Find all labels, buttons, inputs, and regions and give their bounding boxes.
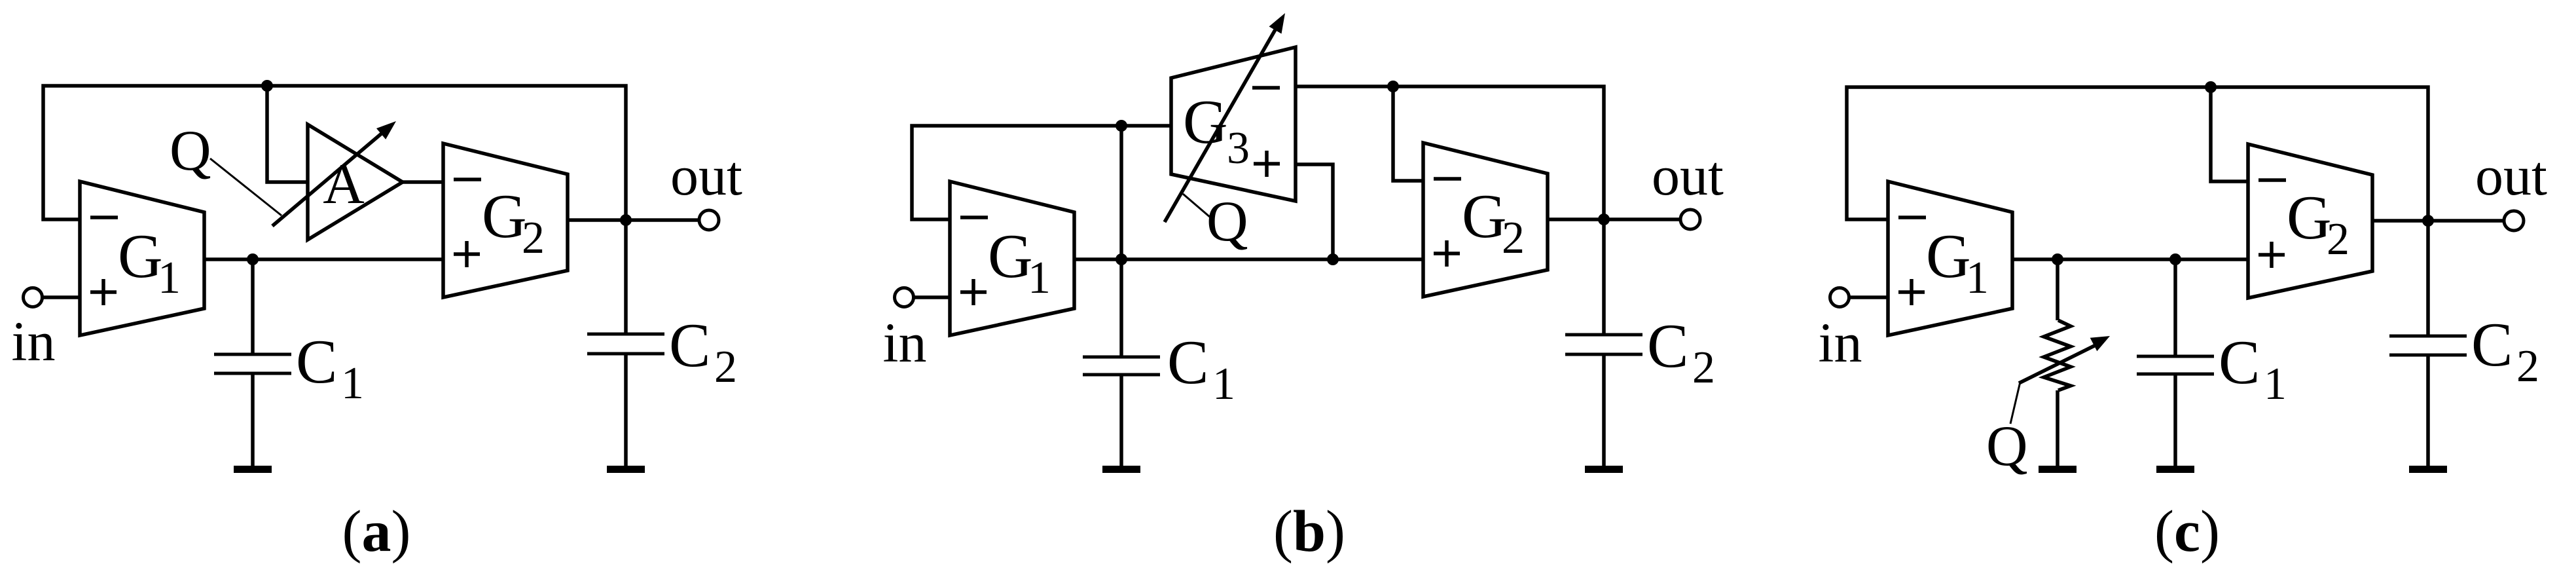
svg-text:1: 1 <box>341 358 364 409</box>
svg-text:C: C <box>669 310 710 380</box>
svg-text:3: 3 <box>1227 123 1250 174</box>
svg-text:G: G <box>118 221 163 291</box>
svg-text:Q: Q <box>1206 190 1248 253</box>
svg-text:C: C <box>1167 327 1208 397</box>
svg-text:G: G <box>1183 87 1228 157</box>
svg-text:Q: Q <box>1986 415 2028 478</box>
svg-text:2: 2 <box>714 342 737 392</box>
svg-text:(a): (a) <box>342 499 411 564</box>
svg-text:out: out <box>2475 144 2547 207</box>
svg-text:C: C <box>2219 327 2260 397</box>
svg-text:C: C <box>2471 310 2513 379</box>
svg-text:2: 2 <box>1692 343 1715 393</box>
svg-text:A: A <box>323 153 365 216</box>
svg-text:in: in <box>883 311 927 374</box>
svg-text:out: out <box>1652 144 1724 207</box>
svg-text:in: in <box>1819 311 1862 374</box>
svg-text:(c): (c) <box>2154 499 2220 564</box>
svg-text:2: 2 <box>2327 214 2349 265</box>
svg-text:C: C <box>296 327 337 396</box>
svg-text:G: G <box>1926 221 1971 291</box>
svg-text:Q: Q <box>170 119 211 183</box>
svg-text:(b): (b) <box>1273 499 1345 564</box>
svg-text:2: 2 <box>1502 213 1525 263</box>
svg-text:out: out <box>670 144 742 207</box>
svg-text:1: 1 <box>2264 359 2287 409</box>
svg-text:G: G <box>2287 183 2332 252</box>
svg-text:G: G <box>1462 181 1507 251</box>
svg-text:G: G <box>482 181 527 251</box>
svg-text:1: 1 <box>1966 253 1989 303</box>
svg-text:2: 2 <box>522 213 545 263</box>
svg-text:1: 1 <box>158 253 181 303</box>
svg-text:in: in <box>12 310 56 373</box>
svg-text:2: 2 <box>2516 341 2539 392</box>
svg-text:C: C <box>1647 311 1688 381</box>
svg-text:G: G <box>988 221 1033 291</box>
svg-text:1: 1 <box>1212 359 1235 409</box>
svg-text:1: 1 <box>1028 253 1051 303</box>
